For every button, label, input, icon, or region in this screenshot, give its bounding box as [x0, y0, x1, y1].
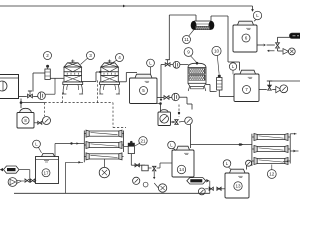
heat exchanger E11: [191, 21, 215, 30]
meter M15: [185, 117, 193, 125]
pump P-FP2: [198, 188, 205, 195]
wire leader C9: [191, 56, 197, 63]
wire leader F21: [135, 143, 140, 146]
level gauge L on T7: [229, 63, 236, 74]
level gauge L on T5: [147, 59, 155, 74]
svg-text:2: 2: [46, 53, 49, 58]
wire leader C10: [217, 56, 219, 74]
label circle 14: [177, 165, 185, 173]
label circle 6: [242, 34, 250, 42]
label circle 4: [116, 54, 124, 62]
label circle 12: [267, 170, 276, 179]
valve V5a: [164, 96, 169, 100]
wire leader B2: [271, 165, 273, 170]
label circle 3: [87, 52, 95, 60]
valve V17a: [25, 179, 29, 182]
label circle 11: [183, 36, 191, 44]
wire top feed pipe: [0, 5, 254, 12]
pump P17: [8, 178, 21, 187]
tank T8: [17, 108, 34, 128]
wire B1 feed: [55, 142, 84, 156]
level gauge L on T17: [33, 140, 42, 153]
dosing box cluster: [142, 163, 172, 179]
label circle 9: [184, 48, 193, 57]
valve V1: [28, 91, 33, 98]
membrane bank B2: [252, 134, 290, 167]
level gauge L on T14: [168, 141, 176, 150]
wire leader E11: [189, 30, 194, 37]
tank T17: [36, 153, 59, 183]
filter press FP2: [187, 178, 210, 184]
pump P-B2: [246, 160, 252, 166]
filter press FP1: [0, 166, 19, 173]
wire riser to rotameter: [33, 73, 55, 94]
wire leader R3: [81, 58, 88, 64]
pump P16a: [133, 177, 148, 187]
wire column feed line: [160, 65, 189, 102]
svg-text:11: 11: [184, 37, 189, 42]
svg-text:10: 10: [214, 49, 220, 54]
level gauge L on T13: [223, 160, 231, 170]
wire C9 outlet: [206, 85, 215, 92]
wire B2 outlets: [283, 133, 299, 163]
pump P16b: [154, 183, 167, 192]
pump P7: [276, 85, 288, 93]
svg-text:7: 7: [245, 87, 248, 92]
label circle 21: [139, 137, 147, 145]
wire C10 outlet to T7: [215, 90, 235, 97]
wire T13 to bank2 pump: [246, 165, 247, 170]
membrane bank B1: [84, 130, 123, 162]
rotameter FM2: [45, 65, 50, 80]
svg-text:17: 17: [43, 170, 49, 175]
svg-text:9: 9: [187, 50, 190, 55]
packed column C9: [188, 62, 206, 91]
label circle 2: [44, 52, 52, 60]
wire T6 outlet to pump cluster: [257, 37, 290, 52]
label circle 17: [42, 169, 50, 177]
svg-text:12: 12: [269, 172, 275, 177]
wire FP1 connections: [19, 170, 36, 181]
pump P-B1: [99, 159, 109, 178]
wire rotameter outlet: [50, 77, 63, 79]
valve V15: [175, 120, 178, 125]
valve V11 with actuator: [165, 60, 170, 67]
svg-text:L: L: [256, 13, 259, 18]
wire T5 right outlet: [157, 97, 192, 109]
wire FP2 to tank13: [205, 181, 225, 194]
valve V13a: [209, 187, 213, 190]
label circle 8: [22, 117, 29, 124]
wire T1 drain to T8: [20, 99, 45, 109]
svg-text:5: 5: [142, 88, 145, 93]
wire to tank14 and bank2: [191, 124, 252, 148]
label circle 13: [234, 182, 242, 190]
wire dashed dosing lines: [45, 79, 181, 128]
valve V8: [34, 121, 42, 124]
discharge box: [290, 33, 303, 38]
pump P1: [38, 92, 55, 100]
wire R3 to R4: [82, 71, 102, 82]
valve V-B1: [135, 164, 139, 167]
pump P11: [173, 61, 180, 68]
wire P15 outlet: [171, 121, 185, 123]
valve V13b: [217, 187, 221, 190]
wire bottom return line: [14, 192, 210, 194]
filter column C10: [217, 75, 222, 91]
wire leader R4: [111, 60, 117, 64]
wire heat-exchanger loop: [169, 15, 239, 71]
label circle 5: [140, 87, 148, 95]
cartridge filter F21: [124, 141, 135, 154]
label circle 10: [212, 46, 221, 55]
tank T1: [0, 75, 19, 99]
wire F21 drain: [131, 154, 145, 166]
svg-text:14: 14: [179, 167, 185, 172]
wire R4 to tank5: [118, 73, 137, 82]
svg-text:6: 6: [245, 36, 248, 41]
pump P5a: [172, 93, 179, 100]
svg-text:13: 13: [235, 184, 241, 189]
wire tank1 outlet: [19, 96, 38, 98]
valve V6: [276, 43, 280, 48]
reactor R4: [99, 60, 120, 95]
valve V17b: [30, 179, 34, 182]
wire T5 bottom drain: [150, 102, 162, 112]
svg-text:3: 3: [89, 53, 92, 58]
wire T7 outlet: [259, 81, 300, 90]
label circle 7: [243, 86, 251, 94]
wire B1 bottom return: [66, 161, 83, 193]
tank T13: [225, 169, 249, 198]
level gauge L on T6: [253, 11, 261, 21]
svg-text:4: 4: [118, 55, 121, 60]
valve V7: [268, 85, 272, 90]
pump P15 motor: [158, 110, 171, 126]
svg-text:21: 21: [140, 138, 146, 143]
reactor R3: [62, 60, 83, 95]
tank T5: [130, 74, 158, 103]
tank T6: [233, 21, 257, 52]
pump P8: [43, 117, 51, 125]
tank T14: [172, 146, 194, 177]
pump P6: [283, 48, 295, 55]
tank T7: [234, 70, 259, 101]
